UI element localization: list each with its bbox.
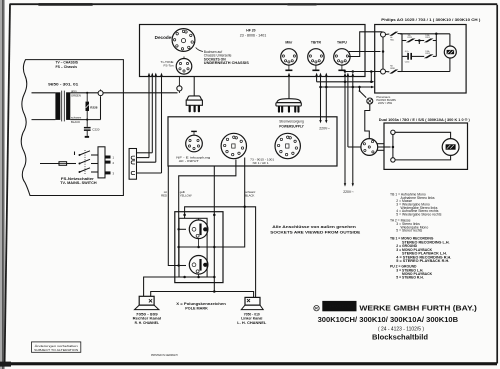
loudspeaker connection box (inner) [179,218,207,277]
wire gelb YELLOW [177,160,235,267]
loudspeaker socket top [189,218,208,247]
wire loudspeaker feed (mid) [213,166,216,293]
motor M (Dual) [442,139,459,156]
svg-text:BLACK: BLACK [245,194,254,198]
svg-text:R228: R228 [90,105,98,109]
switch (phono bulb) [358,86,366,98]
fuse Si (mains fuse) [40,162,76,166]
resistor R228 [86,93,98,120]
registered trademark symbol [314,306,319,311]
Philips record player box [375,25,466,94]
wire bottom to left speaker [144,276,215,297]
decoder / HF chassis box [140,25,366,77]
svg-text:BLACK: BLACK [71,120,80,124]
wire long bottom (pole) [151,292,254,298]
wire primary top [32,92,56,94]
connector circle under TV-TONE socket [177,77,182,94]
loudspeaker right (L.H. channel) [241,297,263,309]
mains bus wire 2 (to Dual record player) [347,73,361,147]
svg-text:GREEN: GREEN [71,93,81,97]
switch linkage (dashed) [84,150,86,174]
svg-text:Stromversorgung: Stromversorgung [279,120,304,124]
wire top loop to motor [395,132,451,138]
motor M (Philips) [444,34,456,72]
wire primary bottom [32,119,56,121]
svg-text:220V / 15W: 220V / 15W [378,101,393,105]
svg-text:TV – CHASSIS: TV – CHASSIS [56,60,79,64]
svg-text:SUBJECT TO ALTERATION: SUBJECT TO ALTERATION [34,348,78,352]
svg-text:schwarz: schwarz [71,116,82,120]
mains plug (TV tone cable) [186,96,202,112]
wire between terminals [382,37,385,69]
wire TB/TR pin to power supply (220V) right [325,73,328,124]
wire bottom loop to motor [395,156,451,160]
wire bundle decoder to connector: wire a [137,73,151,158]
wire bottom rail [400,71,450,73]
socket stub wires [377,143,384,145]
svg-text:Philips AG 1025 / 703 / 1 ( 3: Philips AG 1025 / 703 / 1 ( 300K10 / 300… [381,18,480,22]
TA/PU socket [334,41,350,72]
svg-text:AF - INPUT: AF - INPUT [179,159,199,163]
power socket (large) [275,133,300,158]
svg-text:5 = STEREO PLAYBACK R.H.: 5 = STEREO PLAYBACK R.H. [396,259,449,263]
svg-text:220V∼: 220V∼ [343,190,354,194]
wire lamp to record player socket [365,104,370,139]
svg-text:POWERSUPPLY: POWERSUPPLY [279,124,304,128]
TB/TR socket [308,41,324,72]
svg-text:SOCKETS ARE VIEWED FROM OU: SOCKETS ARE VIEWED FROM OUTSIDE [270,231,361,235]
terminal 2 (bottom) [381,69,386,74]
label 7050-809 Rechter Kanal R.H.CHANNEL [133,312,161,325]
svg-text:( 24 - 4123 - 1102/5 ): ( 24 - 4123 - 1102/5 ) [378,326,424,332]
wire TB/TR pin to power supply (220V) left [319,73,322,124]
ladder right riser [419,33,437,57]
resistor R225 [402,35,424,43]
capacitor C214 [402,51,424,64]
svg-text:RED: RED [161,194,167,198]
wire c [137,73,158,163]
wire rot RED [161,166,179,266]
Dual record player box [384,123,468,169]
wire TA/PU to Philips terminal 2 (straight) [349,51,381,53]
capacitor C220 [84,120,100,136]
svg-text:R201: R201 [425,37,430,39]
wire bus to Philips terminal 2 [345,71,381,73]
ground (chassis) [85,136,89,138]
svg-text:5 = STEREO R.H.: 5 = STEREO R.H. [396,276,423,280]
Dual DIN socket [361,139,378,156]
svg-text:Mikr: Mikr [285,41,293,45]
mating connector block (to decoder cable) [129,149,136,180]
TV chassis enclosure (torn edge) [21,60,123,196]
svg-text:NF 1 / AF 1: NF 1 / AF 1 [253,161,269,165]
terminal link wire [392,135,395,158]
svg-text:R202: R202 [425,53,430,55]
svg-text:R/4L: R/4L [390,39,394,41]
svg-text:TA/PU: TA/PU [337,41,347,45]
svg-text:POLE MARK: POLE MARK [185,306,208,310]
transformer T (mains transformer) [55,91,70,122]
node R228 top [86,92,88,94]
loudspeaker connection box (outer) [175,212,223,283]
wire TA/PU up-and-over to Philips terminal 1 [349,32,383,57]
svg-text:Dual 1003a / 78G / E / S/S (: Dual 1003a / 78G / E / S/S ( 300K10A ( 3… [379,118,470,122]
svg-text:YELLOW: YELLOW [180,194,192,198]
NF1/AF1 socket (medium) [221,133,246,158]
resistor R202 [424,51,436,59]
svg-text:C220: C220 [92,128,100,132]
svg-text:R. H. CHANNEL: R. H. CHANNEL [135,321,160,325]
svg-text:1: 1 [113,156,115,160]
svg-text:FS-Ton: FS-Ton [164,64,174,68]
wire top rail [400,33,450,35]
wire schwarz BLACK [214,158,256,248]
mains plug (decoder cable) [276,99,301,113]
loudspeaker socket bottom [189,255,208,277]
wire mid horizontal (black return) [179,246,215,249]
svg-text:HF 20: HF 20 [246,29,255,33]
svg-text:220V∼: 220V∼ [319,127,330,131]
screw terminal bottom [391,158,395,162]
svg-text:L. H. CHANNEL: L. H. CHANNEL [237,321,267,325]
resistor R201 [418,35,436,43]
screw terminal top [391,130,395,134]
wire b [137,73,154,153]
svg-text:Blockschaltbild: Blockschaltbild [372,335,428,342]
wire secondary black (bottom) [70,119,100,121]
svg-text:5 = Stereo rechts: 5 = Stereo rechts [396,229,422,233]
label 7050-010 Linker Kanal L.H.CHANNEL [237,312,267,325]
wire into Philips lower arrow [321,86,375,88]
svg-text:3: 3 [113,172,115,176]
svg-text:7050 - 010: 7050 - 010 [244,312,260,316]
svg-text:grün: grün [71,89,77,93]
GRUNDIG logo box [322,301,356,311]
svg-text:PRINTED IN GERMANY: PRINTED IN GERMANY [151,353,178,357]
legend pin assignment block [390,193,451,280]
wire TV-TONE to plug [193,77,195,96]
decoder socket (large, underneath chassis) [172,29,195,52]
lamp phono bulb 220V/15W [367,95,396,105]
svg-text:7050 - 809: 7050 - 809 [136,312,158,316]
wire Mikr socket down [288,73,290,99]
svg-text:C214: C214 [405,61,410,63]
terminal 1 (top) [381,32,386,37]
note Buchsen auf Chassis Unterseite / SOCKETS ON UNDERNEATH CHASSIS [196,48,250,66]
node R228 bottom [86,119,88,121]
wire top loop to right speaker [183,206,255,298]
svg-text:23 - 8006 - 1401: 23 - 8006 - 1401 [240,33,267,37]
ladder left riser [401,34,403,72]
svg-text:9650 - 301. 01: 9650 - 301. 01 [48,82,78,86]
switch pole 3 [79,168,99,173]
svg-text:R288: R288 [390,68,395,70]
loudspeaker left (R.H. channel) [135,296,159,309]
svg-text:2: 2 [113,161,115,165]
AF input socket [186,131,203,152]
feedthrough connector on green wire [98,89,103,95]
wire d [137,73,163,173]
power supply box [168,117,337,166]
switch FS-Netzschalter pole 1 [75,151,99,156]
svg-text:FS – Chassis: FS – Chassis [56,65,78,69]
suppressor choke top [386,32,403,42]
svg-text:300K10CH/ 300K10/ 300K10A/ 300: 300K10CH/ 300K10/ 300K10A/ 300K10B [318,317,459,324]
svg-text:Decoder: Decoder [155,35,174,40]
svg-text:R225: R225 [408,37,413,39]
svg-text:GRUNDIG: GRUNDIG [328,305,350,309]
svg-text:5 = Wiedergabe Stereo rechts: 5 = Wiedergabe Stereo rechts [396,212,441,216]
switch pole 2 [79,159,99,164]
wire secondary green (top) [70,92,177,94]
svg-text:TB/TR: TB/TR [311,41,322,45]
suppressor choke bottom [386,66,403,74]
connector block on TV chassis (pins 1-3) [98,147,115,178]
svg-text:UNDERNEATH CHASSIS: UNDERNEATH CHASSIS [204,61,250,65]
mains bus wire 3 (to 220V~ arrow) [352,70,355,186]
Mikr socket [281,41,297,72]
svg-text:WERKE GMBH FURTH (BAY.): WERKE GMBH FURTH (BAY.) [359,303,477,312]
TV-TONE socket [176,57,192,75]
svg-text:4,7µ: 4,7µ [405,51,410,53]
svg-text:X = Polungskennzeichen: X = Polungskennzeichen [176,302,226,306]
wire junction riser [370,70,373,83]
subject to alteration box [32,342,81,352]
svg-text:Alle Anschlüsse von außen ges: Alle Anschlüsse von außen gesehen [272,225,356,229]
svg-text:TV- MAINS- SWITCH: TV- MAINS- SWITCH [60,181,97,185]
svg-text:R: R [315,307,318,311]
wire TB/TR pin down-right (arrow into Philips) [315,73,374,83]
mains bus wire 1 (to 220V~ arrow) [344,70,347,186]
